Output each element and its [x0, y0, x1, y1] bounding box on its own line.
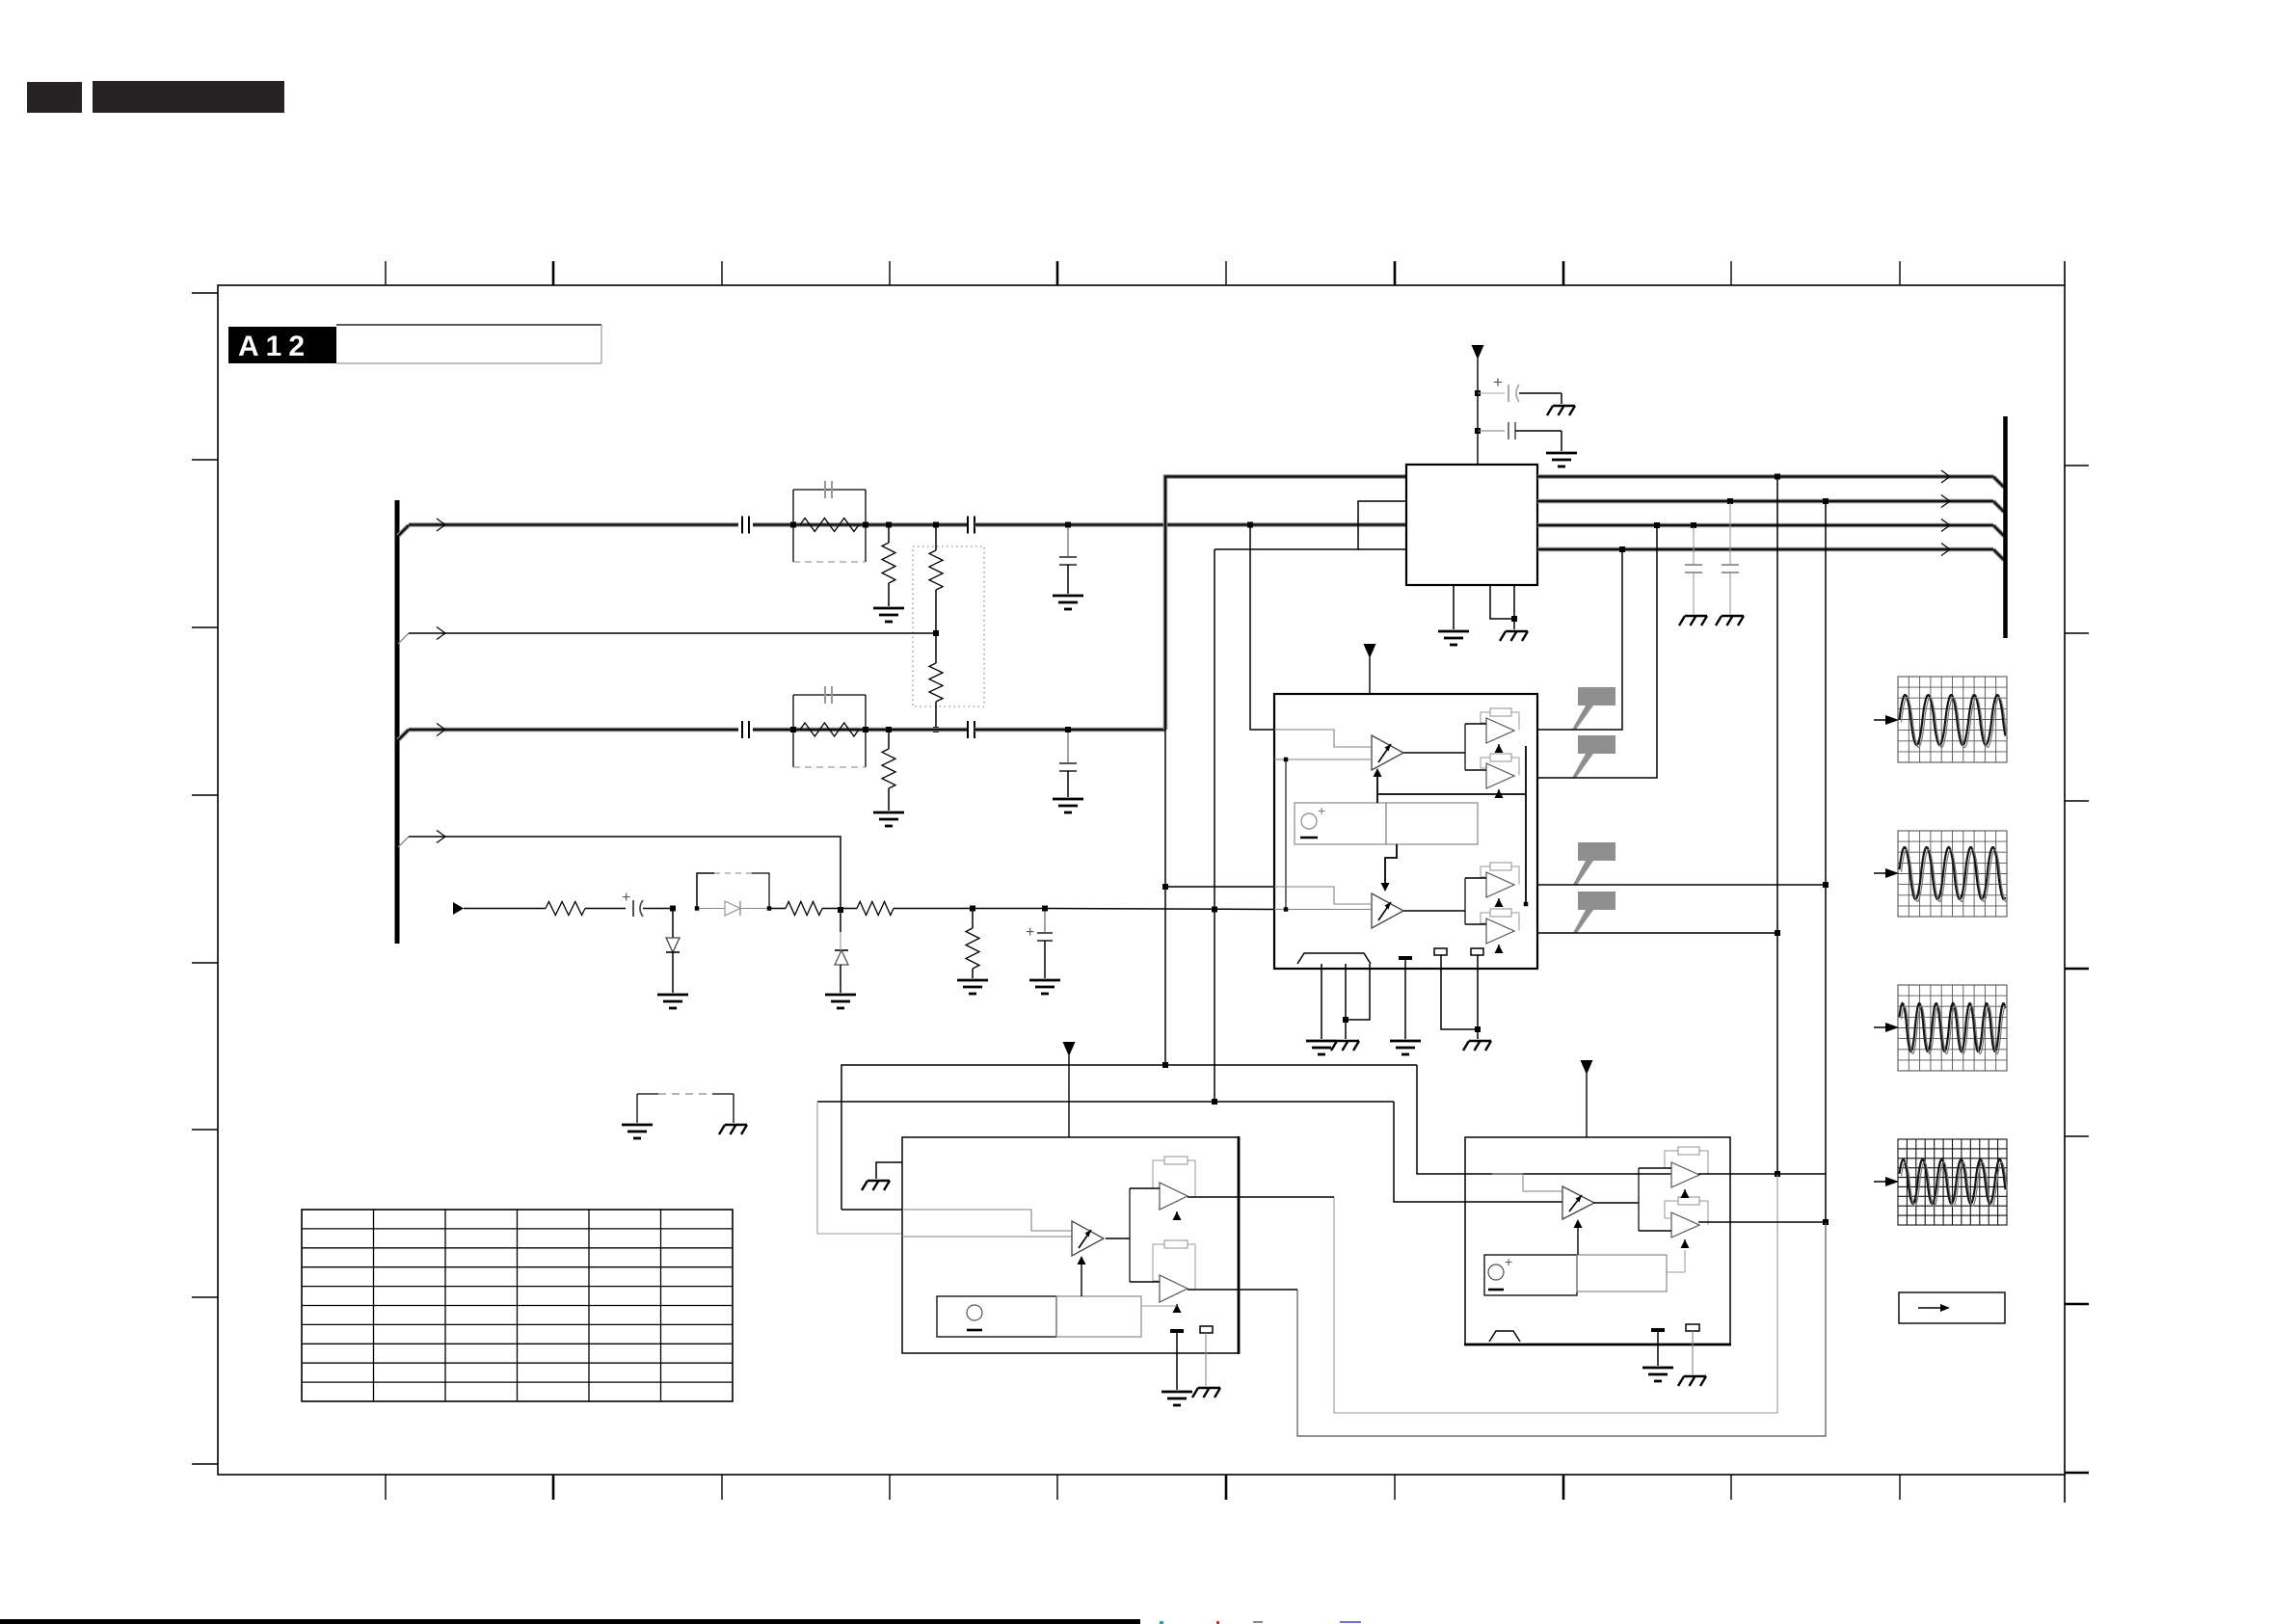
- jumper link right leg: [712, 1093, 734, 1095]
- zener diode under line4: [835, 949, 848, 951]
- wire long vertical x1894: [1825, 501, 1827, 1222]
- bypass diode box over chain: [697, 873, 714, 909]
- gray flag 2: [1572, 735, 1615, 778]
- input bus bar (left): [395, 500, 400, 944]
- junction line3 at shunt capacitor: [1065, 727, 1071, 732]
- op-amp LL2: [1160, 1275, 1188, 1302]
- junction bypass left: [695, 906, 700, 911]
- wire bus entry slant line1: [398, 525, 409, 536]
- wire chain segment 3: [643, 908, 673, 910]
- arrow chevron line2: [437, 627, 445, 640]
- frame top tick marks: [386, 261, 1900, 285]
- op-amp buffer 4: [1486, 918, 1514, 944]
- junction chain at shunt resistor: [970, 906, 975, 912]
- junction line1 at shunt resistor: [886, 522, 892, 528]
- svg-text:+: +: [622, 890, 630, 906]
- parts table grid: [302, 1210, 733, 1401]
- junction x1894 top: [1823, 498, 1829, 504]
- op-amp buffer 2 plus input arrow: [1495, 789, 1504, 798]
- wire signal line1 left segment: [409, 522, 738, 527]
- arrow chevron bus line1 right: [1941, 470, 1950, 483]
- frame left tick marks: [192, 293, 218, 1464]
- legend arrow: [1918, 1307, 1941, 1309]
- junction supply cap1: [1475, 390, 1481, 396]
- wire VCA1 input lower: [1274, 759, 1372, 760]
- wire bus line3 right: [1537, 523, 1993, 528]
- wire net A drop to lower-right IC: [1417, 1065, 1465, 1174]
- wire chain segment 4: [894, 908, 973, 910]
- wire input staircase LR: [1492, 1174, 1562, 1191]
- arrow into VCA1: [1376, 777, 1378, 794]
- resistor in line3 network: [800, 723, 859, 736]
- control block rect lower-right: [1484, 1255, 1577, 1295]
- resistor chain R1: [546, 902, 585, 916]
- gray return loop inner: [1334, 1174, 1777, 1413]
- ground under chain shunt resistor: [957, 980, 988, 994]
- chassis stub lower-left IC: [876, 1162, 902, 1179]
- pin bar wire LR: [1657, 1332, 1659, 1366]
- op-amp buffer 4 feedback loop: [1481, 913, 1490, 923]
- capacitor on top of line1 network: [824, 481, 826, 498]
- oscilloscope waveform 3: [1898, 985, 2007, 1071]
- op-amp buffer 3 feedback loop: [1481, 866, 1490, 877]
- arrow plus LL2: [1173, 1304, 1182, 1313]
- junction line1 to divider: [933, 522, 939, 528]
- wire x1209 branch to IC input: [1165, 886, 1274, 888]
- wire op LL2 output: [1188, 1289, 1297, 1291]
- capacitor shunt under line1: [1067, 527, 1069, 557]
- wire VCA2 input lower: [1274, 909, 1372, 911]
- ground under line3 shunt capacitor: [1053, 799, 1083, 812]
- junction op4-x1844: [1775, 930, 1780, 936]
- wire signal line2: [409, 632, 936, 634]
- internal control block rectangles: [1295, 803, 1386, 844]
- chassis ground cap1: [1547, 406, 1575, 415]
- resistor shunt under line1: [888, 527, 890, 543]
- junction supply cap2: [1475, 428, 1481, 434]
- current source ground bar: [1300, 837, 1318, 839]
- wire long vertical x1844: [1776, 477, 1778, 1175]
- pin rect lower-right: [1686, 1324, 1699, 1331]
- junction chain at node x1260: [1212, 907, 1217, 913]
- wire op4 output to x1844: [1537, 932, 1777, 934]
- supply arrow top-middle IC: [1364, 644, 1376, 658]
- junction op3-x1894: [1823, 882, 1829, 888]
- IC pin wire e: [1441, 955, 1478, 1029]
- arrow plus LL1: [1173, 1211, 1182, 1220]
- wire net A to lower-left IC: [841, 1209, 902, 1211]
- wire input staircase lower-left: [902, 1210, 1072, 1231]
- junction internal x1334 lower: [1284, 907, 1289, 912]
- decoupling capacitor 2: [1478, 430, 1505, 432]
- ground under clamp diode: [657, 995, 688, 1008]
- pin bar lower-left: [1170, 1329, 1184, 1333]
- wire VCA out loop lower-right: [1593, 1202, 1639, 1204]
- op-amp buffer 3: [1486, 872, 1514, 897]
- op-amp LR1: [1671, 1162, 1699, 1187]
- gray flag 3: [1573, 842, 1615, 885]
- op-amp LR1 feedback loop: [1665, 1151, 1678, 1168]
- VCA triangle lower-right: [1562, 1186, 1594, 1219]
- arrow into VCA lower-right: [1577, 1228, 1579, 1255]
- junction net A x1209: [1162, 1062, 1168, 1068]
- wire net A horizontal: [841, 1065, 1417, 1210]
- wire chain segment 5: [973, 908, 1045, 910]
- arrow chevron bus line2 right: [1941, 495, 1950, 508]
- op-amp LL2 feedback loop: [1153, 1244, 1164, 1281]
- arrow chevron bus line4 right: [1941, 544, 1950, 556]
- wire net B drop to lower-right IC: [1394, 1102, 1465, 1202]
- op-amp buffer 1: [1486, 718, 1514, 743]
- control block rect lower-left: [937, 1296, 1056, 1337]
- dotted option box: [913, 546, 984, 706]
- arrow plus LR2: [1681, 1239, 1690, 1248]
- svg-text:+: +: [1505, 1254, 1512, 1269]
- clamp diode down: [672, 911, 674, 938]
- arrow into scope1: [1874, 719, 1887, 721]
- output terminal bus bar: [2003, 416, 2008, 638]
- ground central IC pin1: [1438, 631, 1469, 645]
- gray flag 4: [1573, 892, 1615, 933]
- junction line1 network right: [863, 522, 868, 528]
- current source bar lower-left: [967, 1329, 982, 1332]
- pin rect lower-left: [1200, 1326, 1213, 1333]
- arrow into VCA2: [1385, 844, 1397, 883]
- supply arrow central IC: [1472, 345, 1484, 359]
- wire x1209 lower thin segment: [1164, 730, 1166, 1065]
- ground IC pin d: [1390, 1041, 1421, 1054]
- wire line1 mid segment: [753, 522, 968, 527]
- wire chain segment 2: [585, 908, 626, 910]
- wire VCA2 input staircase: [1274, 887, 1372, 904]
- wire op2 output to line3: [1537, 525, 1657, 778]
- current source circle lower-right: [1488, 1265, 1504, 1280]
- junction x1209 branch to IC: [1162, 884, 1168, 890]
- op-amp buffer 1 feedback loop: [1481, 712, 1490, 723]
- VCA upper triangle: [1372, 735, 1403, 770]
- wire bus entry slant line3: [398, 730, 409, 740]
- arrow into scope2: [1874, 872, 1887, 874]
- junction net B x1260: [1212, 1099, 1217, 1105]
- ground IC pin a: [1306, 1041, 1337, 1054]
- wire op LR2 output: [1698, 1221, 1826, 1223]
- ground pin bar lower-left: [1161, 1392, 1192, 1405]
- resistor divider upper: [935, 527, 937, 550]
- pin rect wire: [1205, 1333, 1207, 1386]
- arrow chevron line4: [437, 831, 445, 843]
- chassis ground central IC: [1500, 631, 1528, 641]
- audio processor IC box: [1274, 694, 1537, 969]
- thick gain bus internal: [1376, 794, 1378, 803]
- junction line2 shunt cap right: [1727, 498, 1733, 504]
- chassis ground IC pin b: [1331, 1041, 1359, 1051]
- wire input LR op1: [1465, 1173, 1671, 1175]
- capacitor shunt under line3: [1067, 732, 1069, 763]
- page header small black rectangle: [27, 82, 82, 113]
- wire op1 output to line4: [1537, 549, 1622, 730]
- op-amp LR2: [1671, 1212, 1699, 1238]
- wire bus entry slant line2: [398, 633, 409, 644]
- op-amp buffer 2: [1486, 763, 1514, 788]
- central notch trapezoid: [1297, 953, 1371, 964]
- junction bypass right: [767, 906, 772, 911]
- lower-right IC box: [1465, 1137, 1730, 1344]
- capacitor series in line3 (first): [741, 721, 743, 738]
- ground under zener diode: [825, 995, 856, 1008]
- central IC box: [1406, 465, 1537, 585]
- IC pin wire f: [1477, 955, 1479, 1039]
- resistor divider lower: [935, 635, 937, 663]
- op-amp buffer 4 plus input arrow: [1495, 945, 1504, 953]
- svg-text:+: +: [1026, 924, 1034, 941]
- arrow head chain input: [453, 902, 464, 915]
- wire VCA1 output loop: [1403, 752, 1465, 754]
- IC pin rect f: [1471, 948, 1483, 955]
- pin rect wire LR: [1692, 1331, 1694, 1374]
- wire op3 output to x1894: [1537, 884, 1826, 886]
- op-amp buffer 1 feedback resistor: [1490, 708, 1511, 716]
- frame right border extensions: [2064, 261, 2066, 285]
- bypass diode symbol: [725, 901, 740, 916]
- damping network box on line3: [793, 694, 866, 696]
- wire VCA out loop lower-left: [1106, 1238, 1130, 1239]
- resistor chain R3: [857, 902, 894, 916]
- frame right tick marks: [2065, 466, 2089, 1473]
- op-amp LR2 feedback loop: [1665, 1201, 1678, 1218]
- wire signal line3 left segment: [409, 728, 738, 732]
- wire op LR1 output: [1698, 1173, 1826, 1175]
- junction pins e-f: [1475, 1026, 1481, 1032]
- chassis ground pin lower-left: [1192, 1388, 1220, 1398]
- wire line4 left stub: [1358, 548, 1406, 550]
- notch trapezoid lower-right: [1489, 1331, 1520, 1342]
- ground cap2: [1546, 453, 1577, 466]
- wire bus line4 right: [1537, 547, 1993, 552]
- wire chain segment 6: [1045, 909, 1274, 910]
- IC pin wire b: [1345, 964, 1347, 1039]
- junction op1-line4: [1619, 546, 1625, 552]
- oscilloscope waveform 1: [1898, 677, 2007, 762]
- junction chain at clamp diode: [670, 906, 676, 912]
- current source circle lower-left: [967, 1305, 982, 1320]
- oscilloscope waveform 4: [1898, 1139, 2007, 1225]
- wire bus line1 right: [1537, 474, 1993, 479]
- junction line4 on chain: [838, 907, 843, 913]
- damping network box on line1: [793, 489, 866, 491]
- wire input 2 lower-left: [902, 1236, 1072, 1238]
- wire VCA2 output loop: [1403, 910, 1465, 912]
- central IC pin wire 2: [1490, 585, 1514, 619]
- pin bar wire: [1176, 1333, 1178, 1390]
- op-amp buffer 2 feedback loop: [1481, 758, 1490, 768]
- ground under chain shunt capacitor: [1029, 980, 1060, 994]
- gray wire to plus arrows LR: [1667, 1250, 1685, 1272]
- arrow plus LR1: [1681, 1189, 1690, 1198]
- chassis ground jumper right: [719, 1125, 747, 1134]
- resistor shunt under line3: [888, 732, 890, 749]
- VCA triangle lower-left: [1072, 1221, 1104, 1256]
- capacitor series in line3: [967, 721, 969, 738]
- wire signal line4: [409, 837, 841, 932]
- junction x1894 bottom: [1823, 1219, 1829, 1225]
- op-amp buffer 4 feedback resistor: [1490, 909, 1511, 917]
- drawing frame border: [218, 285, 2065, 1475]
- ground under line1 shunt resistor: [873, 608, 904, 622]
- capacitor shunt bus line3: [1693, 527, 1695, 565]
- page bottom small colored marks: [1160, 1621, 1163, 1624]
- wire line1 after capacitor: [974, 522, 1406, 527]
- wire chain segment 1: [464, 908, 546, 910]
- sheet title empty box: [336, 324, 601, 326]
- jumper link dashed middle: [658, 1093, 712, 1095]
- capacitor series in line1: [967, 517, 969, 534]
- chassis ground pin lower-right: [1678, 1376, 1706, 1386]
- arrow chevron line1: [437, 519, 445, 531]
- chassis ground stub: [862, 1181, 890, 1190]
- junction line1 network left: [790, 522, 796, 528]
- svg-text:A12: A12: [238, 331, 311, 362]
- op-amp buffer 3 plus input arrow: [1495, 898, 1504, 907]
- IC pin rect e: [1434, 948, 1447, 955]
- current source circle: [1301, 813, 1317, 829]
- oscilloscope waveform 2: [1898, 831, 2007, 917]
- op-amp buffer 1 plus input arrow: [1495, 744, 1504, 753]
- junction line3 at shunt resistor: [886, 727, 892, 732]
- IC pin wire d: [1404, 960, 1406, 1039]
- ground under line3 shunt resistor: [873, 812, 904, 826]
- IC pin wire c: [1346, 964, 1370, 1020]
- arrow chevron bus line3 right: [1941, 519, 1950, 532]
- chassis ground bus cap2: [1716, 616, 1744, 626]
- wire internal vertical x1334: [1285, 759, 1287, 910]
- IC pin bar d: [1399, 956, 1412, 960]
- supply arrow lower-right IC: [1581, 1060, 1593, 1075]
- ground jumper left: [622, 1125, 653, 1138]
- junction internal thick: [1524, 902, 1529, 907]
- junction pins b-c: [1343, 1017, 1348, 1023]
- junction line3 shunt cap right: [1691, 522, 1696, 528]
- sheet label A12 black box: [228, 327, 336, 363]
- op-amp LR1 feedback resistor: [1678, 1147, 1699, 1155]
- junction line1 at shunt capacitor: [1065, 522, 1071, 528]
- junction chain at shunt capacitor: [1042, 906, 1048, 912]
- central IC pin wire 3: [1513, 585, 1515, 629]
- wire op LL1 output: [1188, 1196, 1334, 1198]
- VCA lower triangle: [1372, 893, 1403, 928]
- op-amp LL1 feedback loop: [1153, 1160, 1164, 1188]
- page bottom bar: [0, 1619, 1140, 1624]
- arrow into scope3: [1874, 1026, 1887, 1028]
- junction internal x1334 upper: [1284, 758, 1289, 762]
- op-amp LL1: [1160, 1183, 1188, 1210]
- resistor in line1 network: [800, 519, 859, 532]
- junction x1844 bottom: [1775, 1171, 1780, 1177]
- supply arrow lower-left IC: [1063, 1042, 1076, 1056]
- capacitor series in line1 (first): [741, 517, 743, 534]
- ground under line1 shunt capacitor: [1053, 596, 1083, 609]
- junction line3 network right: [863, 727, 868, 732]
- current source bar lower-right: [1488, 1289, 1504, 1291]
- junction op2-line3: [1654, 522, 1660, 528]
- chassis ground bus cap1: [1679, 616, 1707, 626]
- wire riser x1297 from line1: [1250, 525, 1274, 731]
- arrow into scope4: [1874, 1181, 1887, 1183]
- capacitor on top of line3 network: [824, 686, 826, 704]
- frame bottom tick marks: [386, 1475, 1900, 1500]
- wire line3 riser to line1 level: [1165, 477, 1406, 731]
- junction line3 network left: [790, 727, 796, 732]
- junction x1844 top: [1775, 474, 1780, 480]
- page header title bar black rectangle: [93, 81, 284, 113]
- lower-left IC box: [902, 1137, 1239, 1353]
- IC pin wire a: [1321, 964, 1322, 1039]
- op-amp LL2 feedback resistor: [1164, 1240, 1188, 1248]
- ground pin lower-right: [1642, 1368, 1673, 1381]
- wire bus entry slant line4: [398, 837, 409, 847]
- junction divider mid (line2 end): [933, 630, 939, 636]
- wire line3 to riser: [974, 728, 1165, 732]
- arrow into VCA lower-left: [1081, 1265, 1082, 1296]
- wire net B horizontal: [817, 1101, 1394, 1103]
- chassis ground IC pin f: [1463, 1041, 1491, 1051]
- central IC pin wire 1: [1453, 585, 1455, 629]
- wire input LR VCA: [1465, 1201, 1562, 1203]
- arrow chevron line3: [437, 724, 445, 736]
- wire VCA1 input staircase: [1274, 730, 1372, 747]
- resistor chain R2: [786, 902, 822, 916]
- op-amp LL1 feedback resistor: [1164, 1157, 1188, 1164]
- junction central IC pins: [1511, 616, 1517, 622]
- op-amp LR2 feedback resistor: [1678, 1197, 1699, 1205]
- op-amp buffer 2 feedback resistor: [1490, 754, 1511, 761]
- resistor shunt under chain: [972, 911, 974, 928]
- legend arrow box: [1899, 1292, 2005, 1323]
- op-amp buffer 3 feedback resistor: [1490, 863, 1511, 870]
- wire IC left pin to line4 (inside): [1405, 500, 1407, 502]
- gray wire to plus arrows LL: [1141, 1305, 1177, 1307]
- pin bar lower-right: [1651, 1328, 1665, 1332]
- gray flag 1: [1572, 687, 1615, 730]
- gray return loop outer: [1297, 1222, 1826, 1436]
- capacitor shunt bus line2: [1729, 503, 1731, 565]
- jumper link left leg: [636, 1094, 638, 1123]
- wire bus line2 right: [1537, 499, 1993, 504]
- junction line1 x1297: [1247, 522, 1253, 528]
- wire riser x1260: [1214, 549, 1215, 1104]
- svg-text:+: +: [1318, 803, 1325, 818]
- wire net B drop left: [817, 1102, 902, 1234]
- junction divider bottom on line3: [933, 727, 939, 732]
- wire IC pin link to line4: [1215, 501, 1406, 549]
- wire line3 mid segment: [753, 728, 968, 732]
- svg-text:+: +: [1493, 373, 1503, 391]
